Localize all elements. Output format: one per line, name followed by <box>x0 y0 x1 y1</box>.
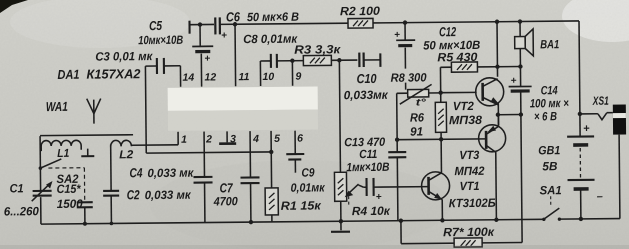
VT3 collector lead <box>495 151 498 219</box>
wire base to VT2 <box>441 91 477 93</box>
capacitor C4 <box>193 177 212 223</box>
svg-text:0,033 мк: 0,033 мк <box>147 166 194 180</box>
transistor VT3 <box>478 125 505 153</box>
pin 6 lead <box>294 131 296 154</box>
svg-text:12: 12 <box>204 71 216 83</box>
svg-text:+: + <box>204 53 210 64</box>
label VT3 <box>454 148 485 178</box>
VT2 emitter lead up <box>496 22 499 77</box>
capacitor C5 <box>192 24 214 86</box>
label L1 <box>57 148 69 160</box>
node junction R4 bottom <box>339 219 343 223</box>
svg-text:L1: L1 <box>57 148 69 160</box>
node junction R4 feed <box>337 58 341 62</box>
svg-text:КТ3102Б: КТ3102Б <box>449 196 497 210</box>
svg-text:R6: R6 <box>410 110 424 124</box>
svg-text:C1: C1 <box>10 181 24 195</box>
pin 3 label <box>230 133 236 145</box>
svg-text:+: + <box>221 30 227 41</box>
inductor L1 <box>41 140 81 151</box>
label BA1 <box>540 37 559 51</box>
svg-text:C15*: C15* <box>57 182 82 196</box>
pin 2 label <box>205 133 212 145</box>
svg-text:R3 3,3к: R3 3,3к <box>294 42 341 56</box>
label C7 <box>213 180 238 208</box>
capacitor C12 <box>394 23 416 90</box>
svg-text:5: 5 <box>274 133 280 145</box>
svg-text:К157ХА2: К157ХА2 <box>86 66 141 82</box>
label C9 <box>290 165 325 194</box>
svg-text:DA1: DA1 <box>57 67 79 82</box>
pin 11 label <box>238 71 249 83</box>
svg-text:МП42: МП42 <box>454 164 484 178</box>
svg-text:XS1: XS1 <box>592 94 609 108</box>
label C14 <box>530 83 569 123</box>
dashed link SA1 <box>550 196 552 206</box>
svg-text:C12: C12 <box>439 24 457 39</box>
capacitor C14 <box>508 66 533 242</box>
svg-text:× 6 В: × 6 В <box>534 109 557 123</box>
svg-text:BA1: BA1 <box>540 37 559 51</box>
pin 5 label <box>274 133 280 145</box>
resistor R7 <box>401 220 522 248</box>
label VT2 <box>449 99 483 127</box>
svg-text:6: 6 <box>297 133 303 145</box>
svg-text:1500: 1500 <box>57 197 83 211</box>
capacitor C3 <box>145 58 180 74</box>
pin 12 label <box>204 71 216 83</box>
svg-text:0,033 мк: 0,033 мк <box>145 188 192 202</box>
connector XS1 <box>580 105 627 219</box>
resistor R2 <box>348 18 373 28</box>
thermistor R8 <box>397 84 441 104</box>
capacitor C15 <box>77 202 93 226</box>
label L2 <box>119 149 134 161</box>
label C13 <box>344 135 385 149</box>
label R5 <box>437 50 477 64</box>
wire C3 left drop to pin5 bus <box>144 66 147 153</box>
label C10 <box>343 71 388 102</box>
wire battery drop <box>579 21 580 136</box>
node junction bias/base wire <box>395 137 399 141</box>
svg-text:0,033мк: 0,033мк <box>344 88 389 102</box>
node junction VT1 collector <box>439 137 443 141</box>
svg-text:R2 100: R2 100 <box>340 4 380 18</box>
svg-text:91: 91 <box>410 124 423 138</box>
pin 3 lead <box>226 131 228 142</box>
IC DA1 K157XA2 body (erased white box) <box>168 86 318 130</box>
dashed link R4 to SA1 <box>348 196 350 207</box>
wire bottom ground rail <box>41 219 620 225</box>
node junction C6 right / pin 11 <box>233 22 237 26</box>
node junction R5 right <box>495 65 499 69</box>
label R7 <box>443 225 495 239</box>
label WA1 <box>46 99 68 114</box>
label C2 <box>127 187 192 203</box>
wire pin5 bus <box>146 152 271 153</box>
capacitor C9 <box>286 154 304 173</box>
label SA2 <box>56 172 78 186</box>
node junction C5 top <box>198 22 202 26</box>
label SA1 <box>540 183 562 197</box>
svg-text:GB1: GB1 <box>538 143 560 157</box>
dashed link SA2 to C15 <box>48 168 84 201</box>
resistor R5 <box>440 62 520 73</box>
svg-text:+: + <box>376 192 382 203</box>
pin 1 label <box>181 134 187 146</box>
svg-text:+: + <box>583 123 590 135</box>
svg-text:VT2: VT2 <box>453 99 474 113</box>
label R8 <box>390 70 426 84</box>
node junction battery bottom rail <box>579 217 583 221</box>
node junction C12 top <box>403 20 407 24</box>
label C15 <box>57 182 84 211</box>
capacitor C11 <box>359 177 429 203</box>
capacitor C10 <box>359 52 380 67</box>
svg-text:WA1: WA1 <box>46 99 68 114</box>
resistor R1 <box>265 152 279 222</box>
svg-text:11: 11 <box>238 71 249 83</box>
pin 10 label <box>262 71 274 83</box>
wire bias vertical <box>396 93 399 151</box>
svg-text:2: 2 <box>205 133 212 145</box>
label C11 <box>346 147 390 174</box>
scan artifact top-left corner <box>0 0 28 13</box>
label C4 <box>129 165 194 181</box>
wire VT3 base <box>397 138 486 141</box>
terminal bar C10 right <box>379 53 381 66</box>
node junction VT1 emitter rail <box>440 218 444 222</box>
tap of L1 <box>81 149 94 157</box>
wire midpoint to C14 <box>498 112 523 117</box>
inductor L2 <box>111 140 132 190</box>
VT1 emitter lead down <box>441 199 443 220</box>
wire top supply rail <box>190 21 579 25</box>
wire tank top rail <box>40 134 133 137</box>
node junction pin 5 <box>269 150 273 154</box>
svg-text:50 мк×6 В: 50 мк×6 В <box>247 10 299 25</box>
variable capacitor C1 <box>31 136 53 224</box>
svg-text:R8 300: R8 300 <box>390 70 426 84</box>
svg-text:t°: t° <box>416 97 427 108</box>
svg-text:VT3: VT3 <box>459 148 479 162</box>
svg-text:C4: C4 <box>129 165 143 180</box>
pin 10 lead <box>259 61 261 86</box>
transistor VT1 <box>421 172 449 200</box>
svg-text:C3 0,01 мк: C3 0,01 мк <box>95 49 153 64</box>
label XS1 <box>592 94 609 108</box>
svg-text:+: + <box>394 30 400 41</box>
label t of R8 <box>416 97 427 108</box>
capacitor C8 <box>260 54 303 68</box>
capacitor C7 <box>240 177 259 222</box>
scan artifact bottom edge <box>0 245 629 249</box>
svg-text:C5: C5 <box>149 18 163 33</box>
svg-text:R1 15к: R1 15к <box>281 198 322 212</box>
svg-text:9: 9 <box>295 71 301 83</box>
capacitor C2 <box>103 191 119 224</box>
svg-text:–: – <box>597 191 603 203</box>
label R2 <box>340 4 380 18</box>
svg-text:C9: C9 <box>301 166 314 180</box>
pin 5 lead <box>270 131 272 152</box>
svg-text:C10: C10 <box>356 71 377 86</box>
svg-text:4700: 4700 <box>213 194 238 208</box>
svg-text:C2: C2 <box>127 187 141 202</box>
label R6 <box>410 110 425 138</box>
pin 4 label <box>252 133 259 145</box>
resistor R3 <box>303 55 331 65</box>
pin 1 lead and wire to L2 <box>131 132 178 145</box>
node junction C13 bottom rail <box>399 218 403 222</box>
label VT1 <box>449 179 497 210</box>
svg-text:10мк×10В: 10мк×10В <box>138 33 183 47</box>
node junction VT2 top rail <box>495 20 499 24</box>
node junction C7 bottom <box>249 220 253 224</box>
svg-text:6...260: 6...260 <box>4 204 39 218</box>
label C6 <box>226 9 299 25</box>
node junction C2 bottom <box>110 222 114 226</box>
svg-text:10: 10 <box>262 71 274 83</box>
svg-text:3: 3 <box>230 133 236 145</box>
speaker BA1 <box>515 21 534 66</box>
svg-text:4: 4 <box>252 133 259 145</box>
pin 11 lead <box>234 24 237 86</box>
wire C10 node down to R4 <box>339 60 340 172</box>
terminal bar left end of top rail <box>188 21 190 34</box>
pin 14 label <box>182 72 194 84</box>
potentiometer R4 <box>334 172 346 221</box>
chassis ground tick at R4 <box>331 221 350 232</box>
wire R3 to C10 <box>331 59 357 61</box>
VT3 emitter lead <box>497 115 499 125</box>
pin 6 label <box>297 133 303 145</box>
label DA1 <box>57 66 141 82</box>
wiper arrow R4 <box>345 184 359 197</box>
label R3 <box>294 42 341 56</box>
resistor R6 <box>435 93 446 140</box>
svg-text:C8 0,01мк: C8 0,01мк <box>243 32 298 47</box>
node junction C14 top <box>518 64 522 68</box>
svg-text:R7* 100к: R7* 100к <box>443 225 495 239</box>
svg-text:0,01мк: 0,01мк <box>291 180 326 194</box>
svg-text:+: + <box>511 76 517 87</box>
svg-text:1мк×10В: 1мк×10В <box>346 160 389 174</box>
pin 4 lead <box>249 131 251 177</box>
svg-text:C7: C7 <box>220 180 234 195</box>
capacitor C13 <box>388 152 407 221</box>
label C8 <box>243 32 298 47</box>
svg-text:МП38: МП38 <box>449 113 482 127</box>
svg-text:L2: L2 <box>119 149 134 161</box>
node junction R5 left <box>439 67 441 92</box>
label R1 <box>281 198 322 212</box>
pin 2 lead <box>203 132 205 177</box>
node junction speaker top <box>518 19 522 23</box>
transistor VT2 <box>476 78 504 106</box>
node junction VT2 base <box>438 90 442 94</box>
svg-text:14: 14 <box>182 72 194 84</box>
switch SA2 <box>39 159 62 170</box>
switch SA1 <box>542 208 561 221</box>
pin 14 lead <box>179 66 181 87</box>
ground symbol pin 3 <box>219 142 236 145</box>
label C3 <box>95 49 153 64</box>
node junction jack tap <box>578 112 582 116</box>
label C12 <box>423 24 481 53</box>
label GB1 <box>538 143 561 173</box>
label R4 <box>352 204 391 218</box>
svg-text:SA1: SA1 <box>540 183 562 197</box>
svg-text:R5 430: R5 430 <box>437 50 477 64</box>
svg-text:C6: C6 <box>226 9 241 24</box>
node junction pin 9 <box>290 58 294 62</box>
capacitor C6 <box>215 17 227 41</box>
antenna WA1 <box>87 99 101 124</box>
svg-text:1: 1 <box>181 134 187 146</box>
svg-text:5В: 5В <box>542 159 557 173</box>
battery GB1 <box>567 123 603 219</box>
node junction output midpoint <box>496 113 500 117</box>
svg-text:R4 10к: R4 10к <box>352 204 391 218</box>
svg-text:VT1: VT1 <box>460 179 480 193</box>
pin 9 label <box>295 71 301 83</box>
pin 9 lead <box>291 61 293 86</box>
VT1 collector lead up <box>440 139 442 172</box>
node junction VT3 collector rail <box>494 218 498 222</box>
label C5 <box>138 18 184 47</box>
VT2 collector lead down <box>497 103 499 125</box>
label C1 <box>4 181 40 218</box>
